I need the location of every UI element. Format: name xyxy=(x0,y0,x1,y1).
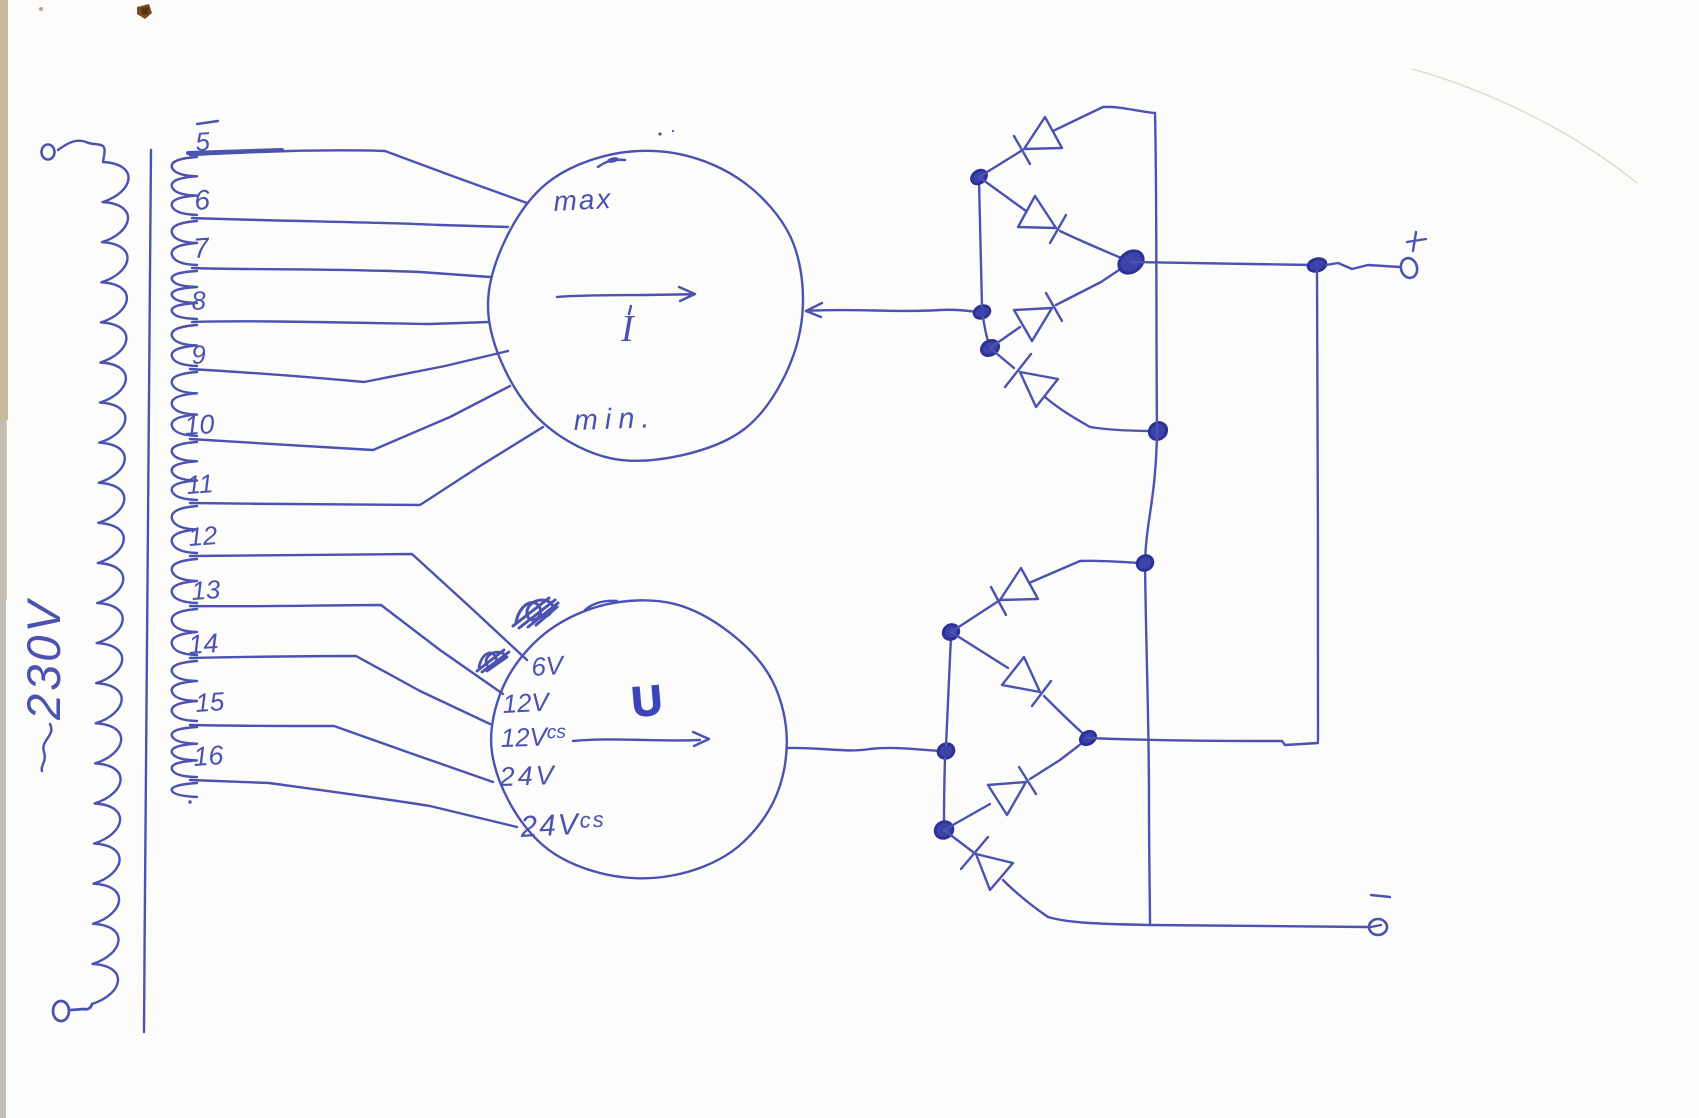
diode D1 xyxy=(979,107,1155,177)
node bridge2 input (mid-left) xyxy=(936,741,956,760)
wire tap 12 to selector U (6V) xyxy=(190,554,527,660)
crossed-out label (scribble small) xyxy=(477,650,509,672)
wire tap 10 to selector I xyxy=(190,386,510,450)
label 24V xyxy=(498,760,557,792)
wire tap 5 to selector I xyxy=(188,150,527,203)
arrow (selector U wiper direction) xyxy=(573,732,709,746)
wire bridge2 input node down to lower-left node xyxy=(944,758,945,827)
wire selector I output to bridge 1 input node xyxy=(806,310,978,312)
label + xyxy=(1407,232,1426,251)
svg-text:U: U xyxy=(630,676,664,725)
node bridge1 bottom (on negative rail) xyxy=(1146,419,1170,443)
output terminal - xyxy=(1369,919,1387,935)
svg-text:230V: 230V xyxy=(17,598,70,721)
label - xyxy=(1371,895,1390,897)
label 12V xyxy=(502,686,552,719)
diode D2 xyxy=(979,177,1128,261)
svg-text:6: 6 xyxy=(193,184,211,216)
label min. xyxy=(573,402,657,437)
label I xyxy=(620,306,636,350)
svg-text:13: 13 xyxy=(190,574,221,606)
pin 8 label xyxy=(190,285,207,316)
wire tap 9 to selector I xyxy=(190,351,508,382)
wire primary winding to bottom terminal xyxy=(71,1004,92,1010)
pin 16 label xyxy=(192,740,225,772)
svg-text:11: 11 xyxy=(185,468,214,500)
svg-text:6V: 6V xyxy=(530,650,566,682)
pin 12 label xyxy=(187,520,218,552)
svg-text:16: 16 xyxy=(192,740,225,772)
diode D6 xyxy=(951,632,1086,736)
svg-text:8: 8 xyxy=(190,285,207,316)
arrow (selector I wiper direction) xyxy=(557,287,695,301)
svg-text:12V: 12V xyxy=(502,686,552,719)
svg-text:9: 9 xyxy=(190,339,207,370)
node bridge2 positive output (center) xyxy=(1078,729,1098,747)
wire tap 13 to selector U (12V) xyxy=(190,605,503,694)
label max xyxy=(553,183,613,217)
wire tap 11 to selector I xyxy=(190,427,543,505)
pin 15 label xyxy=(194,686,225,718)
svg-text:24V: 24V xyxy=(498,760,557,792)
label U xyxy=(630,676,664,725)
diode D8 xyxy=(944,830,1048,917)
pin 11 label xyxy=(185,468,214,500)
node bridge1 lower-left xyxy=(979,337,1002,358)
output terminal + xyxy=(1399,256,1420,279)
wire tap 16 to selector U (24Vcs) xyxy=(190,780,517,827)
svg-text:12: 12 xyxy=(187,520,218,552)
transformer primary winding xyxy=(92,162,128,1004)
node bridge2 lower-left xyxy=(932,819,956,842)
transformer secondary winding xyxy=(172,157,197,804)
pin 7 label xyxy=(192,232,211,264)
wire negative rail (vertical) xyxy=(1145,113,1157,925)
label 6V xyxy=(530,650,566,682)
wire tap 15 to selector U (24V) xyxy=(190,725,493,782)
diode D7 xyxy=(944,740,1086,830)
svg-text:14: 14 xyxy=(187,628,219,660)
crossed-out label (scribble) xyxy=(513,598,558,628)
node bridge1 positive output (center) xyxy=(1115,246,1148,277)
node bridge1 input (mid-left) xyxy=(972,304,991,321)
label 24Vcs xyxy=(519,807,607,844)
label 12Vcs xyxy=(500,721,567,753)
rotary selector S2 (voltage U) body xyxy=(491,600,787,878)
wire + node down to bridge 2 output xyxy=(1317,271,1318,741)
transformer core xyxy=(144,150,151,1032)
wire primary top terminal to winding xyxy=(58,141,105,162)
label ~ 230V xyxy=(17,598,70,771)
node + junction xyxy=(1307,257,1327,273)
pin 6 label xyxy=(193,184,211,216)
pin 9 label xyxy=(190,339,207,370)
svg-text:min.: min. xyxy=(573,402,657,437)
pin 14 label xyxy=(187,628,219,660)
wire selector U output to bridge 2 input node xyxy=(787,748,942,751)
node bridge2 top (on negative rail) xyxy=(1135,553,1156,573)
pin 5 label xyxy=(194,121,218,157)
wire bridge2 output to + rail xyxy=(1088,738,1318,745)
svg-text:10: 10 xyxy=(183,409,215,441)
transformer primary terminal (top) xyxy=(42,145,55,160)
diode D5 xyxy=(951,561,1142,632)
node bridge2 top-left xyxy=(940,622,961,643)
rotary selector S1 (current I) body xyxy=(488,151,803,461)
wire tap 14 to selector U (12Vcs) xyxy=(190,656,490,724)
pin 13 label xyxy=(190,574,221,606)
wire bridge1 input node up to top-left node xyxy=(979,180,982,307)
transformer primary terminal (bottom) xyxy=(53,1001,69,1021)
wire tap 6 to selector I xyxy=(192,218,508,227)
wire tap 8 to selector I xyxy=(192,321,489,324)
pin 10 label xyxy=(183,409,215,441)
wire + node to + terminal xyxy=(1326,263,1400,269)
wire bridge1 output to + node xyxy=(1131,262,1313,265)
svg-text:15: 15 xyxy=(194,686,225,718)
wire tap 7 to selector I xyxy=(192,268,490,277)
wire bridge2 bottom to - terminal xyxy=(1048,917,1368,927)
svg-text:max: max xyxy=(553,183,613,217)
selector I wiper contact arrow xyxy=(806,303,822,317)
diode D3 xyxy=(990,264,1128,348)
node bridge1 top-left xyxy=(969,167,989,186)
diode D4 xyxy=(990,348,1152,431)
wire bridge2 input node up to top-left node xyxy=(946,636,951,746)
wire bridge1 input node down to lower-left node xyxy=(983,317,990,346)
